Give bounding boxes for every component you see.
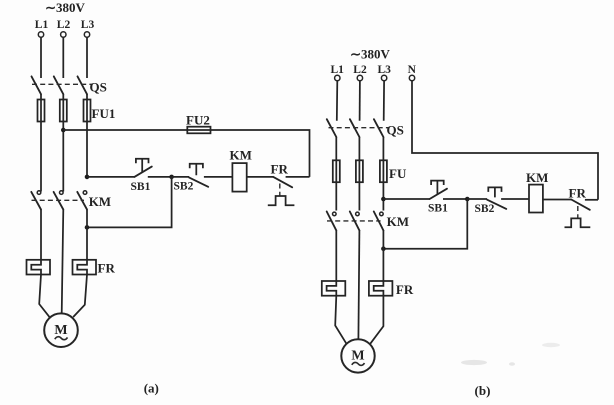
wire KM coil to FR contact (247, 176, 274, 178)
terminal L3 (b) (381, 75, 386, 80)
contactor KM pole 2 pivot circle (b) (356, 212, 360, 216)
wire holding branch (b) (383, 199, 467, 249)
contact FR blade (b) (571, 200, 590, 210)
contactor KM pole 1 blade (31, 192, 41, 210)
thermal element FR phase1 box (a) (27, 260, 51, 275)
wire L3 KM to FR element (b) (382, 230, 384, 281)
svg-text:N: N (408, 64, 417, 76)
terminal L3 (a) (84, 32, 89, 37)
wire KM coil to FR contact (b) (543, 199, 571, 201)
scan smudge 3 (542, 343, 560, 347)
pushbutton SB2 blade (NO) (189, 178, 208, 187)
wire SB1 to junction (b) (443, 198, 467, 200)
wire L2 QS to fuse (62, 94, 64, 130)
wire L2 KM to motor (62, 210, 64, 314)
svg-text:QS: QS (90, 80, 107, 95)
svg-text:SB2: SB2 (475, 203, 495, 215)
svg-text:L2: L2 (57, 19, 71, 31)
contactor KM pole 1 pivot circle (37, 191, 41, 195)
wire L3 tap to SB1 (87, 176, 134, 178)
switch QS linkage dashed (b) (329, 127, 389, 129)
wire tap to SB1 (b) (383, 198, 429, 200)
switch QS pole 1 blade (b) (327, 119, 337, 137)
pushbutton SB2 actuator (b) (488, 187, 501, 197)
wire L2 drop to QS (b) (359, 81, 361, 121)
contact FR linkage dashes (a) (279, 184, 281, 196)
coil KM (a) (232, 163, 246, 192)
thermal element FR phase3 box (a) (73, 260, 97, 275)
wire control top rail (a) (63, 130, 309, 177)
contactor KM pole 2 blade (54, 192, 64, 210)
wire L3 drop to QS (86, 37, 88, 78)
wire L1 drop to QS (b) (336, 81, 339, 121)
pushbutton SB1 actuator (b) (431, 181, 444, 195)
contactor KM pole 3 pivot circle (83, 191, 87, 195)
wire L2 drop to QS (62, 37, 64, 78)
switch QS pole 3 blade (b) (374, 119, 384, 137)
thermal element FR phase1 heater (a) (31, 260, 41, 275)
contact FR thermal symbol (b) (565, 218, 591, 227)
motor tilde (b) (352, 362, 365, 365)
contact FR linkage dashes (b) (577, 206, 579, 218)
wire L2 QS to fuse (b) (358, 137, 360, 211)
thermal element FR phase3 box (b) (369, 281, 393, 296)
thermal element FR phase3 heater (a) (77, 260, 87, 275)
contactor KM pole 1 pivot circle (b) (333, 212, 337, 216)
node holding return on L3 (b) (381, 246, 386, 251)
wire L3 QS to fuse (b) (382, 137, 384, 211)
svg-text:KM: KM (89, 194, 111, 209)
wire L3 QS to fuse (86, 94, 88, 177)
terminal L1 (b) (335, 75, 340, 80)
contactor KM pole 1 blade (b) (327, 212, 337, 231)
terminal L2 (a) (61, 32, 66, 37)
wire L3 FR to motor (73, 275, 87, 318)
svg-text:SB2: SB2 (174, 181, 194, 193)
wire L3 drop to QS (b) (383, 81, 385, 121)
wire SB1 to junction (148, 176, 172, 178)
contactor KM pole 3 blade (b) (374, 212, 384, 231)
wire N line (b) (412, 81, 598, 200)
svg-text:FR: FR (98, 261, 116, 276)
wire L1 fuse to KM contact (40, 126, 42, 192)
fuse FU2 (187, 127, 210, 134)
pushbutton SB1 blade (NC) (134, 167, 151, 177)
switch QS pole 2 blade (b) (350, 119, 360, 137)
thermal element FR phase1 heater (b) (327, 281, 337, 296)
svg-text:M: M (54, 323, 67, 338)
contactor KM pole 3 blade (77, 192, 87, 210)
motor M circle (a) (44, 313, 78, 347)
pushbutton SB1 blade (NC) (b) (430, 189, 447, 199)
svg-text:KM: KM (526, 170, 548, 185)
wire SB2 to KM coil (b) (501, 198, 529, 200)
terminal N (b) (409, 75, 414, 80)
contactor KM pole 2 pivot circle (60, 191, 64, 195)
svg-text:(a): (a) (144, 381, 159, 396)
wire L3 FR to motor (b) (370, 296, 383, 344)
svg-text:KM: KM (387, 214, 409, 229)
wire L1 FR to motor (b) (335, 296, 346, 344)
fuse FU pole 3 (b) (380, 160, 387, 182)
wire junction to SB2 (172, 176, 190, 178)
wire holding branch (a) (87, 177, 172, 228)
thermal element FR phase1 box (b) (322, 281, 346, 296)
wire L1 KM to FR element (b) (335, 230, 337, 281)
svg-text:L1: L1 (330, 64, 344, 76)
svg-text:FR: FR (271, 162, 289, 177)
motor tilde (a) (55, 337, 68, 340)
fuse FU1 pole 1 (38, 100, 45, 122)
fuse FU pole 2 (b) (356, 160, 363, 182)
contactor KM linkage dashed (a) (32, 199, 85, 201)
svg-text:FU2: FU2 (186, 113, 210, 128)
svg-text:FR: FR (396, 282, 414, 297)
svg-text:L3: L3 (377, 64, 391, 76)
wire L3 KM to FR element (86, 210, 88, 260)
wire FR right terminal (b) (585, 199, 598, 201)
node holding return on L3 (a) (85, 225, 90, 230)
contact FR thermal symbol (a) (268, 196, 295, 205)
scan smudge 2 (509, 362, 515, 366)
node SB1 tap on L3 (85, 175, 90, 180)
switch QS pole 3 blade (78, 76, 88, 94)
svg-text:FR: FR (569, 186, 587, 201)
terminal L1 (a) (38, 32, 43, 37)
fuse FU1 pole 2 (60, 100, 67, 122)
svg-text:FU1: FU1 (92, 106, 116, 121)
terminal L2 (b) (357, 75, 362, 80)
svg-text:∼380V: ∼380V (350, 47, 390, 62)
pushbutton SB2 blade (NO) (b) (487, 200, 506, 209)
contact FR blade (a) (273, 177, 292, 187)
svg-text:L3: L3 (81, 19, 95, 31)
switch QS pole 2 blade (54, 76, 64, 94)
fuse FU pole 1 (b) (333, 160, 340, 182)
svg-text:L2: L2 (353, 64, 367, 76)
pushbutton SB1 actuator (136, 159, 149, 173)
svg-text:FU: FU (389, 166, 407, 181)
wire L2 KM to motor (b) (358, 230, 359, 339)
contactor KM linkage dashed (b) (327, 220, 381, 222)
node FU2 tap on L2 (61, 128, 66, 133)
wire junction to SB2 (b) (467, 198, 487, 200)
svg-text:∼380V: ∼380V (45, 0, 85, 15)
contactor KM pole 2 blade (b) (350, 212, 360, 231)
svg-text:L1: L1 (35, 19, 49, 31)
wire SB2 to KM coil (204, 176, 233, 178)
wire L1 QS to fuse (40, 94, 42, 126)
thermal element FR phase3 heater (b) (374, 281, 384, 296)
svg-text:KM: KM (230, 148, 252, 163)
svg-text:M: M (351, 349, 364, 364)
fuse FU1 pole 3 (84, 100, 91, 122)
node SB1-SB2 junction (a) (169, 175, 174, 180)
wire L1 FR to motor (39, 275, 50, 318)
coil KM (b) (529, 185, 543, 213)
node control tap on L3 (b) (381, 197, 386, 202)
wire L1 QS to fuse (b) (335, 137, 337, 211)
contactor KM pole 3 pivot circle (b) (380, 212, 384, 216)
node SB1-SB2 junction (b) (465, 197, 470, 202)
wire L1 KM to FR element (40, 210, 42, 260)
svg-text:SB1: SB1 (131, 181, 151, 193)
wire FR right terminal (a) (286, 176, 310, 178)
scan smudge 1 (461, 360, 487, 365)
wire L1 drop to QS (40, 37, 42, 78)
wire L2 fuse to KM contact (62, 130, 64, 192)
pushbutton SB2 actuator (190, 164, 203, 176)
switch QS pole 1 blade (32, 76, 42, 94)
svg-text:SB1: SB1 (428, 203, 448, 215)
svg-text:QS: QS (387, 123, 404, 138)
svg-text:(b): (b) (475, 383, 491, 398)
switch QS linkage dashed (32, 83, 92, 85)
motor M circle (b) (341, 339, 374, 372)
